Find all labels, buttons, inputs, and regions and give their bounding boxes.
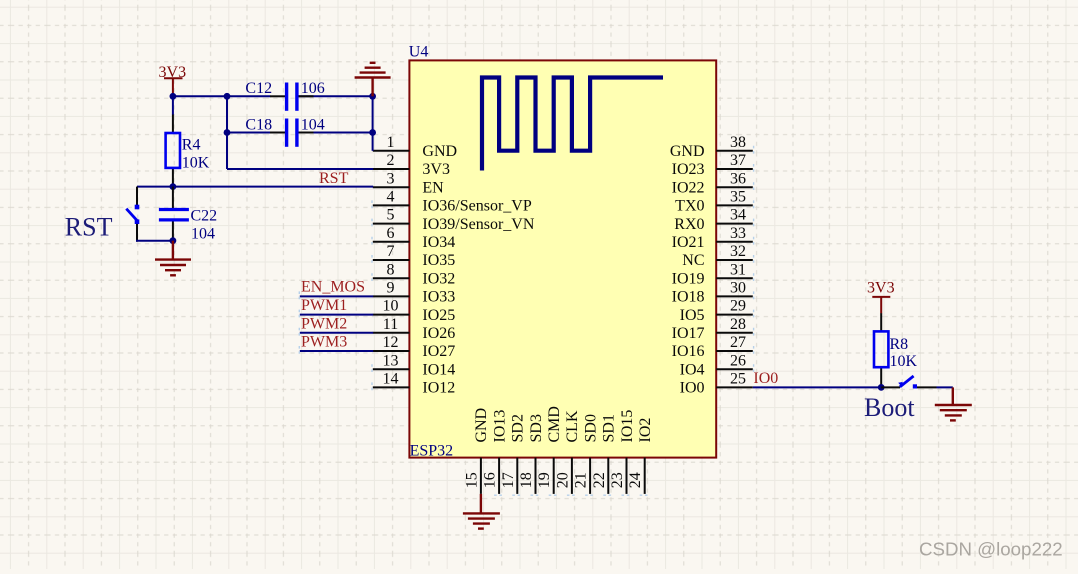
svg-text:IO27: IO27 (422, 343, 455, 360)
switch S-RST (pushbutton) (126, 205, 139, 224)
svg-text:C12: C12 (245, 80, 272, 97)
pin 13 IO14 (left) (373, 352, 455, 378)
svg-text:22: 22 (591, 472, 608, 488)
svg-text:CSDN @loop222: CSDN @loop222 (919, 539, 1063, 560)
unconnected pin end markers (299, 146, 753, 495)
svg-text:35: 35 (730, 189, 746, 206)
ground symbol (below C22) (155, 241, 191, 276)
svg-text:27: 27 (730, 334, 746, 351)
pin 3 EN (left) (373, 170, 444, 196)
pin 37 IO23 (right) (672, 152, 753, 178)
svg-text:24: 24 (627, 472, 644, 488)
svg-text:U4: U4 (409, 44, 429, 61)
wire: PWM3 stub to pin 12 (300, 350, 373, 352)
svg-text:SD3: SD3 (528, 414, 545, 442)
svg-text:25: 25 (730, 371, 746, 388)
wire: RST net y=186.6 from switch to pin3 (137, 186, 373, 188)
svg-text:IO14: IO14 (422, 361, 455, 378)
svg-text:104: 104 (301, 117, 325, 134)
designator U4 (409, 44, 429, 61)
capacitor C22 plates (159, 210, 189, 220)
svg-text:TX0: TX0 (675, 198, 704, 215)
pin 10 IO25 (left) (373, 298, 455, 324)
C18 value 104 (301, 117, 325, 134)
net label EN_MOS (301, 279, 365, 296)
pin 8 IO32 (left) (373, 261, 455, 287)
svg-text:12: 12 (383, 334, 399, 351)
svg-text:GND: GND (473, 408, 490, 443)
junction at C12/ground branch (369, 93, 376, 100)
part name ESP32 (410, 443, 454, 460)
svg-text:3V3: 3V3 (422, 161, 450, 178)
svg-text:RST: RST (65, 212, 113, 241)
wire: right branch x=372.6 from ground down to pin1 (372, 96, 374, 151)
pin 18 SD3 (bottom) (518, 414, 545, 494)
wire: IO0 net from pin25 to R8/switch (753, 386, 881, 388)
svg-text:15: 15 (463, 472, 480, 488)
svg-text:IO32: IO32 (422, 270, 455, 287)
pin 16 IO13 (bottom) (482, 410, 509, 494)
junction at C12/C18 left branch (224, 93, 231, 100)
svg-text:IO5: IO5 (680, 307, 705, 324)
svg-text:10K: 10K (182, 155, 210, 172)
net label PWM1 (301, 297, 347, 314)
pin 6 IO34 (left) (373, 225, 455, 251)
switch S-Boot (pushbutton) (898, 376, 917, 389)
wire: PWM1 stub to pin 10 (300, 314, 373, 316)
net label RST (319, 170, 349, 187)
svg-text:GND: GND (422, 143, 457, 160)
capacitor C12 (270, 83, 314, 111)
svg-text:IO21: IO21 (672, 234, 705, 251)
pin 5 IO39/Sensor_VN (left) (373, 207, 535, 233)
svg-text:21: 21 (573, 472, 590, 488)
pin 24 IO2 (bottom) (627, 418, 654, 494)
pin 12 IO27 (left) (373, 334, 455, 360)
junction IO0/R8/switch node (878, 384, 885, 391)
ESP32 module U4 body (409, 60, 716, 457)
svg-text:8: 8 (387, 261, 395, 278)
pin 36 IO22 (right) (672, 170, 753, 196)
svg-text:IO16: IO16 (672, 343, 705, 360)
svg-text:ESP32: ESP32 (410, 443, 454, 460)
pin 29 IO5 (right) (680, 298, 753, 324)
pin 11 IO26 (left) (373, 316, 455, 342)
svg-text:20: 20 (554, 472, 571, 488)
R4 value 10K (182, 155, 210, 172)
C12 value 106 (301, 80, 325, 97)
resistor R8 body (874, 331, 888, 367)
junction at 3V3/R4 node (170, 93, 177, 100)
svg-text:33: 33 (730, 225, 746, 242)
R8 value 10K (890, 353, 918, 370)
pin 22 SD1 (bottom) (591, 414, 618, 494)
svg-text:R8: R8 (890, 336, 909, 353)
pin 21 SD0 (bottom) (573, 414, 600, 494)
svg-text:IO22: IO22 (672, 179, 705, 196)
svg-text:CMD: CMD (546, 406, 563, 442)
svg-text:IO33: IO33 (422, 289, 455, 306)
svg-text:IO2: IO2 (637, 418, 654, 443)
junction C18 right (369, 129, 376, 136)
pin 27 IO16 (right) (672, 334, 753, 360)
svg-text:IO12: IO12 (422, 380, 455, 397)
switch S-Boot right lead (917, 386, 937, 388)
resistor R4 body (166, 133, 180, 168)
svg-text:10K: 10K (890, 353, 918, 370)
svg-text:R4: R4 (182, 137, 201, 154)
switch S-Boot left lead (881, 386, 900, 388)
svg-text:IO17: IO17 (672, 325, 705, 342)
pin 30 IO18 (right) (672, 280, 753, 306)
svg-text:11: 11 (383, 316, 398, 333)
pin 31 IO19 (right) (672, 261, 753, 287)
pin 14 IO12 (left) (373, 371, 455, 397)
svg-text:NC: NC (682, 252, 704, 269)
ground symbol (top, above C12 node) (355, 63, 391, 97)
pin 1 GND (left) (373, 134, 457, 160)
svg-text:IO36/Sensor_VP: IO36/Sensor_VP (422, 198, 531, 215)
R8 label (890, 336, 909, 353)
svg-text:SD0: SD0 (582, 414, 599, 442)
svg-text:IO13: IO13 (491, 410, 508, 443)
svg-text:IO19: IO19 (672, 270, 705, 287)
svg-text:32: 32 (730, 243, 746, 260)
svg-text:16: 16 (482, 472, 499, 488)
C22 label (191, 208, 218, 225)
svg-text:13: 13 (383, 352, 399, 369)
pin 19 CMD (bottom) (536, 406, 563, 494)
ground symbol (right, Boot) (935, 387, 972, 420)
junction C18 left (224, 129, 231, 136)
svg-text:19: 19 (536, 472, 553, 488)
wire: EN_MOS stub to pin 9 (300, 295, 373, 297)
pin 26 IO4 (right) (680, 352, 753, 378)
svg-text:38: 38 (730, 134, 746, 151)
svg-text:IO4: IO4 (680, 361, 705, 378)
antenna meander graphic inside U4 (482, 78, 663, 171)
wire: navy 3V3 node down to R4 top stub (172, 96, 174, 114)
pin 33 IO21 (right) (672, 225, 753, 251)
pin 23 IO15 (bottom) (609, 410, 636, 494)
svg-text:IO23: IO23 (672, 161, 705, 178)
svg-text:IO0: IO0 (680, 380, 705, 397)
svg-text:23: 23 (609, 472, 626, 488)
svg-text:34: 34 (730, 207, 746, 224)
svg-text:C22: C22 (191, 208, 218, 225)
svg-text:17: 17 (500, 472, 517, 488)
C18 label (245, 117, 272, 134)
net label IO0 (753, 370, 778, 387)
pin 4 IO36/Sensor_VP (left) (373, 189, 532, 215)
svg-text:IO25: IO25 (422, 307, 455, 324)
svg-text:IO39/Sensor_VN: IO39/Sensor_VN (422, 216, 534, 233)
pin 25 IO0 (right) (680, 371, 753, 397)
pin 15 GND (bottom) (463, 408, 490, 494)
C12 label (245, 80, 272, 97)
svg-text:IO0: IO0 (753, 370, 778, 387)
svg-text:RST: RST (319, 170, 349, 187)
net label PWM3 (301, 334, 347, 351)
svg-text:IO15: IO15 (619, 410, 636, 443)
svg-text:1: 1 (387, 134, 395, 151)
svg-text:18: 18 (518, 472, 535, 488)
net label PWM2 (301, 315, 347, 332)
svg-text:EN: EN (422, 179, 444, 196)
svg-text:PWM2: PWM2 (301, 315, 347, 332)
svg-text:106: 106 (301, 80, 325, 97)
svg-text:28: 28 (730, 316, 746, 333)
watermark CSDN @loop222 (919, 539, 1063, 560)
pin 34 RX0 (right) (674, 207, 753, 233)
svg-text:7: 7 (387, 243, 395, 260)
wire: switch bottom to C22 bottom node (136, 240, 173, 242)
svg-text:SD1: SD1 (601, 414, 618, 442)
svg-text:14: 14 (383, 371, 399, 388)
switch S-RST bottom lead (136, 224, 138, 242)
svg-text:IO26: IO26 (422, 325, 455, 342)
resistor R4 pin stubs (172, 115, 174, 187)
wire: PWM2 stub to pin 11 (300, 332, 373, 334)
svg-text:6: 6 (387, 225, 395, 242)
svg-text:C18: C18 (245, 117, 272, 134)
switch S-RST top lead (136, 187, 138, 205)
ground symbol (bottom, pin 15) (463, 494, 500, 529)
resistor R8 pin stubs (880, 313, 882, 387)
C22 value 104 (191, 225, 215, 242)
annotation Boot (pushbutton name) (864, 393, 915, 422)
svg-text:IO35: IO35 (422, 252, 455, 269)
svg-text:3: 3 (387, 170, 395, 187)
R4 label (182, 137, 201, 154)
svg-text:GND: GND (670, 143, 705, 160)
pin 2 3V3 (left) (373, 152, 450, 178)
pin 32 NC (right) (682, 243, 753, 269)
wire: switch to ground corner (937, 386, 953, 388)
capacitor C22 leads (172, 187, 174, 241)
pin 38 GND (right) (670, 134, 753, 160)
pin 28 IO17 (right) (672, 316, 753, 342)
svg-text:PWM3: PWM3 (301, 334, 347, 351)
svg-text:29: 29 (730, 298, 746, 315)
svg-text:10: 10 (383, 298, 399, 315)
wire: left branch x=227 from 3V3 rail down to pin2 wire (226, 96, 228, 169)
svg-text:9: 9 (387, 280, 395, 297)
junction C22/switch/ground node (170, 237, 177, 244)
svg-text:30: 30 (730, 280, 746, 297)
svg-text:RX0: RX0 (674, 216, 704, 233)
svg-text:5: 5 (387, 207, 395, 224)
pin 35 TX0 (right) (675, 189, 753, 215)
svg-text:CLK: CLK (564, 410, 581, 442)
svg-text:EN_MOS: EN_MOS (301, 279, 365, 296)
junction RST/R4/C22 node (170, 183, 177, 190)
svg-text:26: 26 (730, 352, 746, 369)
wire: pin2 3V3 feed y=169 (227, 168, 373, 170)
capacitor C18 (270, 119, 314, 147)
svg-text:4: 4 (387, 189, 395, 206)
pin 17 SD2 (bottom) (500, 414, 527, 494)
svg-text:Boot: Boot (864, 393, 915, 422)
power symbol 3V3 (right) (867, 280, 895, 314)
svg-text:2: 2 (387, 152, 395, 169)
svg-text:IO18: IO18 (672, 289, 705, 306)
wire: 3V3 rail y=96.3 from x=172.9 to x=372.6 (through C12) (173, 95, 373, 97)
svg-text:IO34: IO34 (422, 234, 455, 251)
svg-text:36: 36 (730, 170, 746, 187)
svg-text:PWM1: PWM1 (301, 297, 347, 314)
svg-text:3V3: 3V3 (867, 280, 895, 297)
pin 9 IO33 (left) (373, 280, 455, 306)
pin 7 IO35 (left) (373, 243, 455, 269)
svg-text:37: 37 (730, 152, 746, 169)
svg-text:104: 104 (191, 225, 215, 242)
svg-text:SD2: SD2 (510, 414, 527, 442)
power symbol 3V3 (left) (159, 64, 187, 96)
pin 20 CLK (bottom) (554, 410, 581, 494)
svg-text:31: 31 (730, 261, 746, 278)
wire: C18 row y=132.5 (227, 132, 373, 134)
annotation RST (pushbutton name) (65, 212, 113, 241)
